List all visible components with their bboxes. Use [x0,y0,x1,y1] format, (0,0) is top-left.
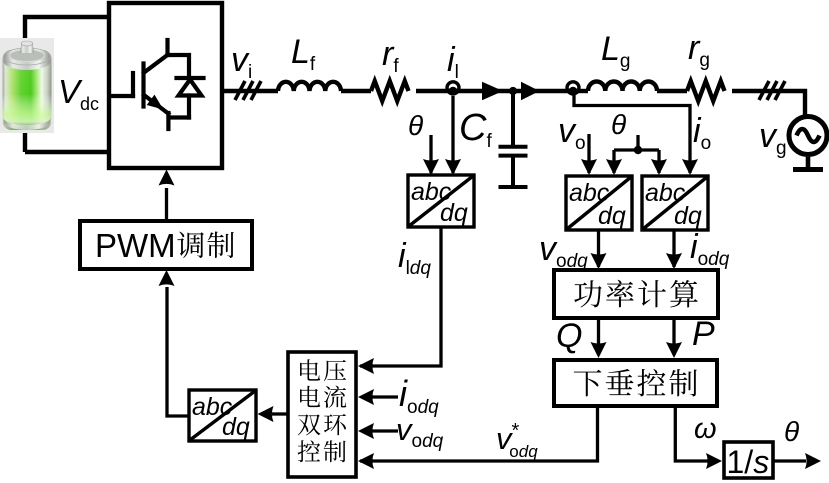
svg-text:dq: dq [598,202,626,230]
svg-text:Q: Q [556,317,582,355]
svg-text:θ: θ [611,109,626,140]
svg-text:1/s: 1/s [727,444,770,480]
svg-text:θ: θ [408,110,423,141]
svg-text:ω: ω [694,413,717,445]
svg-text:dq: dq [674,202,702,230]
svg-text:dq: dq [440,199,468,227]
svg-text:θ: θ [784,416,799,447]
svg-text:PWM: PWM [95,227,176,264]
svg-text:P: P [692,315,715,353]
svg-text:dq: dq [222,413,250,441]
